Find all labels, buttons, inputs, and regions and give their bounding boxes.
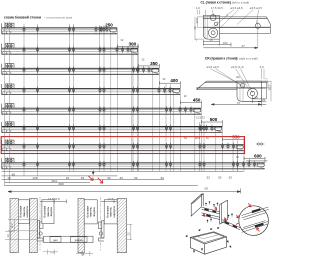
dark blocks on mini rails [252,208,264,227]
detail circle (zoom bubble) [239,206,269,236]
step ladder dimension lines at row ends [118,44,268,162]
svg-text:500: 500 [210,117,218,122]
small tick arrow above dim [92,170,94,174]
svg-text:12,7: 12,7 [264,78,268,84]
svg-text:4,0: 4,0 [196,6,200,10]
slide 450 rail assembly [2,103,202,114]
svg-text:ø3,5 ø4,5: ø3,5 ø4,5 [230,6,243,10]
small hole marks right of red box [256,143,265,145]
svg-text:17,5 ±0,5: 17,5 ±0,5 [211,6,223,10]
svg-text:ø3,5 ø4,5: ø3,5 ø4,5 [250,6,263,10]
slide 300 rail assembly [2,43,139,54]
svg-text:20: 20 [255,95,259,99]
section A drawer panel label [42,200,54,224]
red arrows on rails [203,207,239,221]
svg-text:50: 50 [12,172,16,176]
section A wall panel label [18,200,29,224]
svg-text:12,5 32: 12,5 32 [196,116,205,120]
CR dimension labels [207,65,265,69]
CL right mounting hole [255,21,260,48]
svg-text:корпуса: корпуса [25,206,29,218]
slide 250 rail assembly [2,23,118,34]
slide 550 rail assembly [2,139,244,150]
svg-text:100: 100 [223,41,228,45]
assembly pins around drawer [186,227,231,253]
section B drawer side panel (hatched) [78,199,84,253]
CR mounting bracket [237,81,261,101]
svg-text:4,0: 4,0 [260,65,264,69]
svg-text:CL (левая к стенке): CL (левая к стенке) [201,1,231,5]
CL leader lines [197,10,258,29]
CR bottom dimensions [211,81,266,106]
drawer box (isometric) [190,232,226,255]
CL dimension labels [196,6,263,10]
slide 500 rail assembly [2,121,223,132]
red mark at lower rail end [236,223,239,225]
svg-text:47: 47 [242,44,246,48]
screws floating above rails [205,201,232,223]
section A wall panel (hatched) [10,199,18,253]
svg-text:ящика: ящика [92,207,96,216]
cabinet right panel (isometric) [220,200,228,224]
section B drawer panel label [84,200,97,224]
section B centerline [100,197,102,251]
svg-text:400: 400 [170,78,178,83]
svg-text:32: 32 [229,176,233,180]
bottom dimension lines [2,171,244,193]
CR leader lines [211,69,265,93]
svg-text:øL: øL [205,187,209,191]
svg-text:32: 32 [134,176,138,180]
svg-text:12,5: 12,5 [108,197,114,201]
svg-text:CR (правая к стенке): CR (правая к стенке) [205,56,238,60]
section A drawer side panel (hatched) [29,199,37,253]
svg-text:32: 32 [161,176,165,180]
CL left side dimensions [193,18,199,43]
svg-text:ø3,5 (2,4): ø3,5 (2,4) [231,65,244,69]
svg-text:350: 350 [150,61,158,66]
slide 600 rail assembly [2,158,265,169]
svg-text:300: 300 [129,41,137,46]
svg-text:корпуса: корпуса [112,206,116,218]
svg-text:CL (left to a wall): CL (left to a wall) [228,1,250,5]
CR right side dimensions [264,78,271,91]
svg-text:25: 25 [210,38,214,42]
slide 350 rail assembly [2,63,160,74]
svg-text:32: 32 [107,176,111,180]
section B wall panel label [104,200,117,224]
detail circle contents: slide close-up [241,207,269,232]
svg-text:7,4: 7,4 [50,251,54,255]
slide 400 rail assembly [2,83,181,94]
section B wall panel (hatched) [117,199,126,253]
red highlight rectangle for 550 size [1,137,244,154]
svg-text:600: 600 [254,154,262,159]
svg-text:схема боковой стенки: схема боковой стенки [4,16,41,20]
svg-text:CR (right to a wall): CR (right to a wall) [234,56,258,60]
svg-text:10: 10 [7,176,11,180]
section A slide profile [37,221,43,242]
section B slide profile [98,221,104,242]
svg-text:14: 14 [6,234,10,238]
vertical projection lines [5,22,245,186]
intermediate step dimensions [121,38,240,159]
svg-text:32: 32 [218,176,222,180]
svg-text:450: 450 [193,98,201,103]
svg-text:32: 32 [81,176,85,180]
svg-text:460: 460 [59,182,64,186]
cabinet left panel (isometric) [191,194,203,216]
svg-text:10: 10 [66,176,70,180]
svg-text:25: 25 [262,98,266,102]
svg-text:32: 32 [207,176,211,180]
slide rail lower (between panels) [202,213,220,220]
svg-text:32: 32 [120,176,124,180]
svg-text:67: 67 [237,101,241,105]
svg-text:22: 22 [127,232,131,236]
svg-text:250: 250 [105,23,113,28]
slide rail upper (between panels) [202,207,220,214]
svg-text:(R): (R) [236,75,240,79]
svg-text:ø4,5 ø4,5: ø4,5 ø4,5 [207,65,220,69]
svg-text:дно: дно [53,239,58,242]
red arrows inside detail [248,203,259,231]
svg-text:ящика: ящика [49,207,53,216]
CL mounting bracket [203,15,219,39]
svg-text:204: 204 [52,179,57,183]
section A centerline [39,197,41,251]
CL bottom dimensions [203,40,257,49]
CR rail side view [197,81,267,89]
svg-text:L: L [227,13,229,17]
svg-text:128: 128 [33,176,38,180]
dashed leader to detail circle [247,210,251,212]
drawer bottom panel [44,236,94,242]
red indicator arrows [88,176,103,183]
svg-text:/ относительно края: / относительно края [45,15,73,19]
svg-text:11,2: 11,2 [10,223,14,229]
CL rail side view [203,17,270,34]
slide rail to drawer (isometric) [222,220,240,230]
